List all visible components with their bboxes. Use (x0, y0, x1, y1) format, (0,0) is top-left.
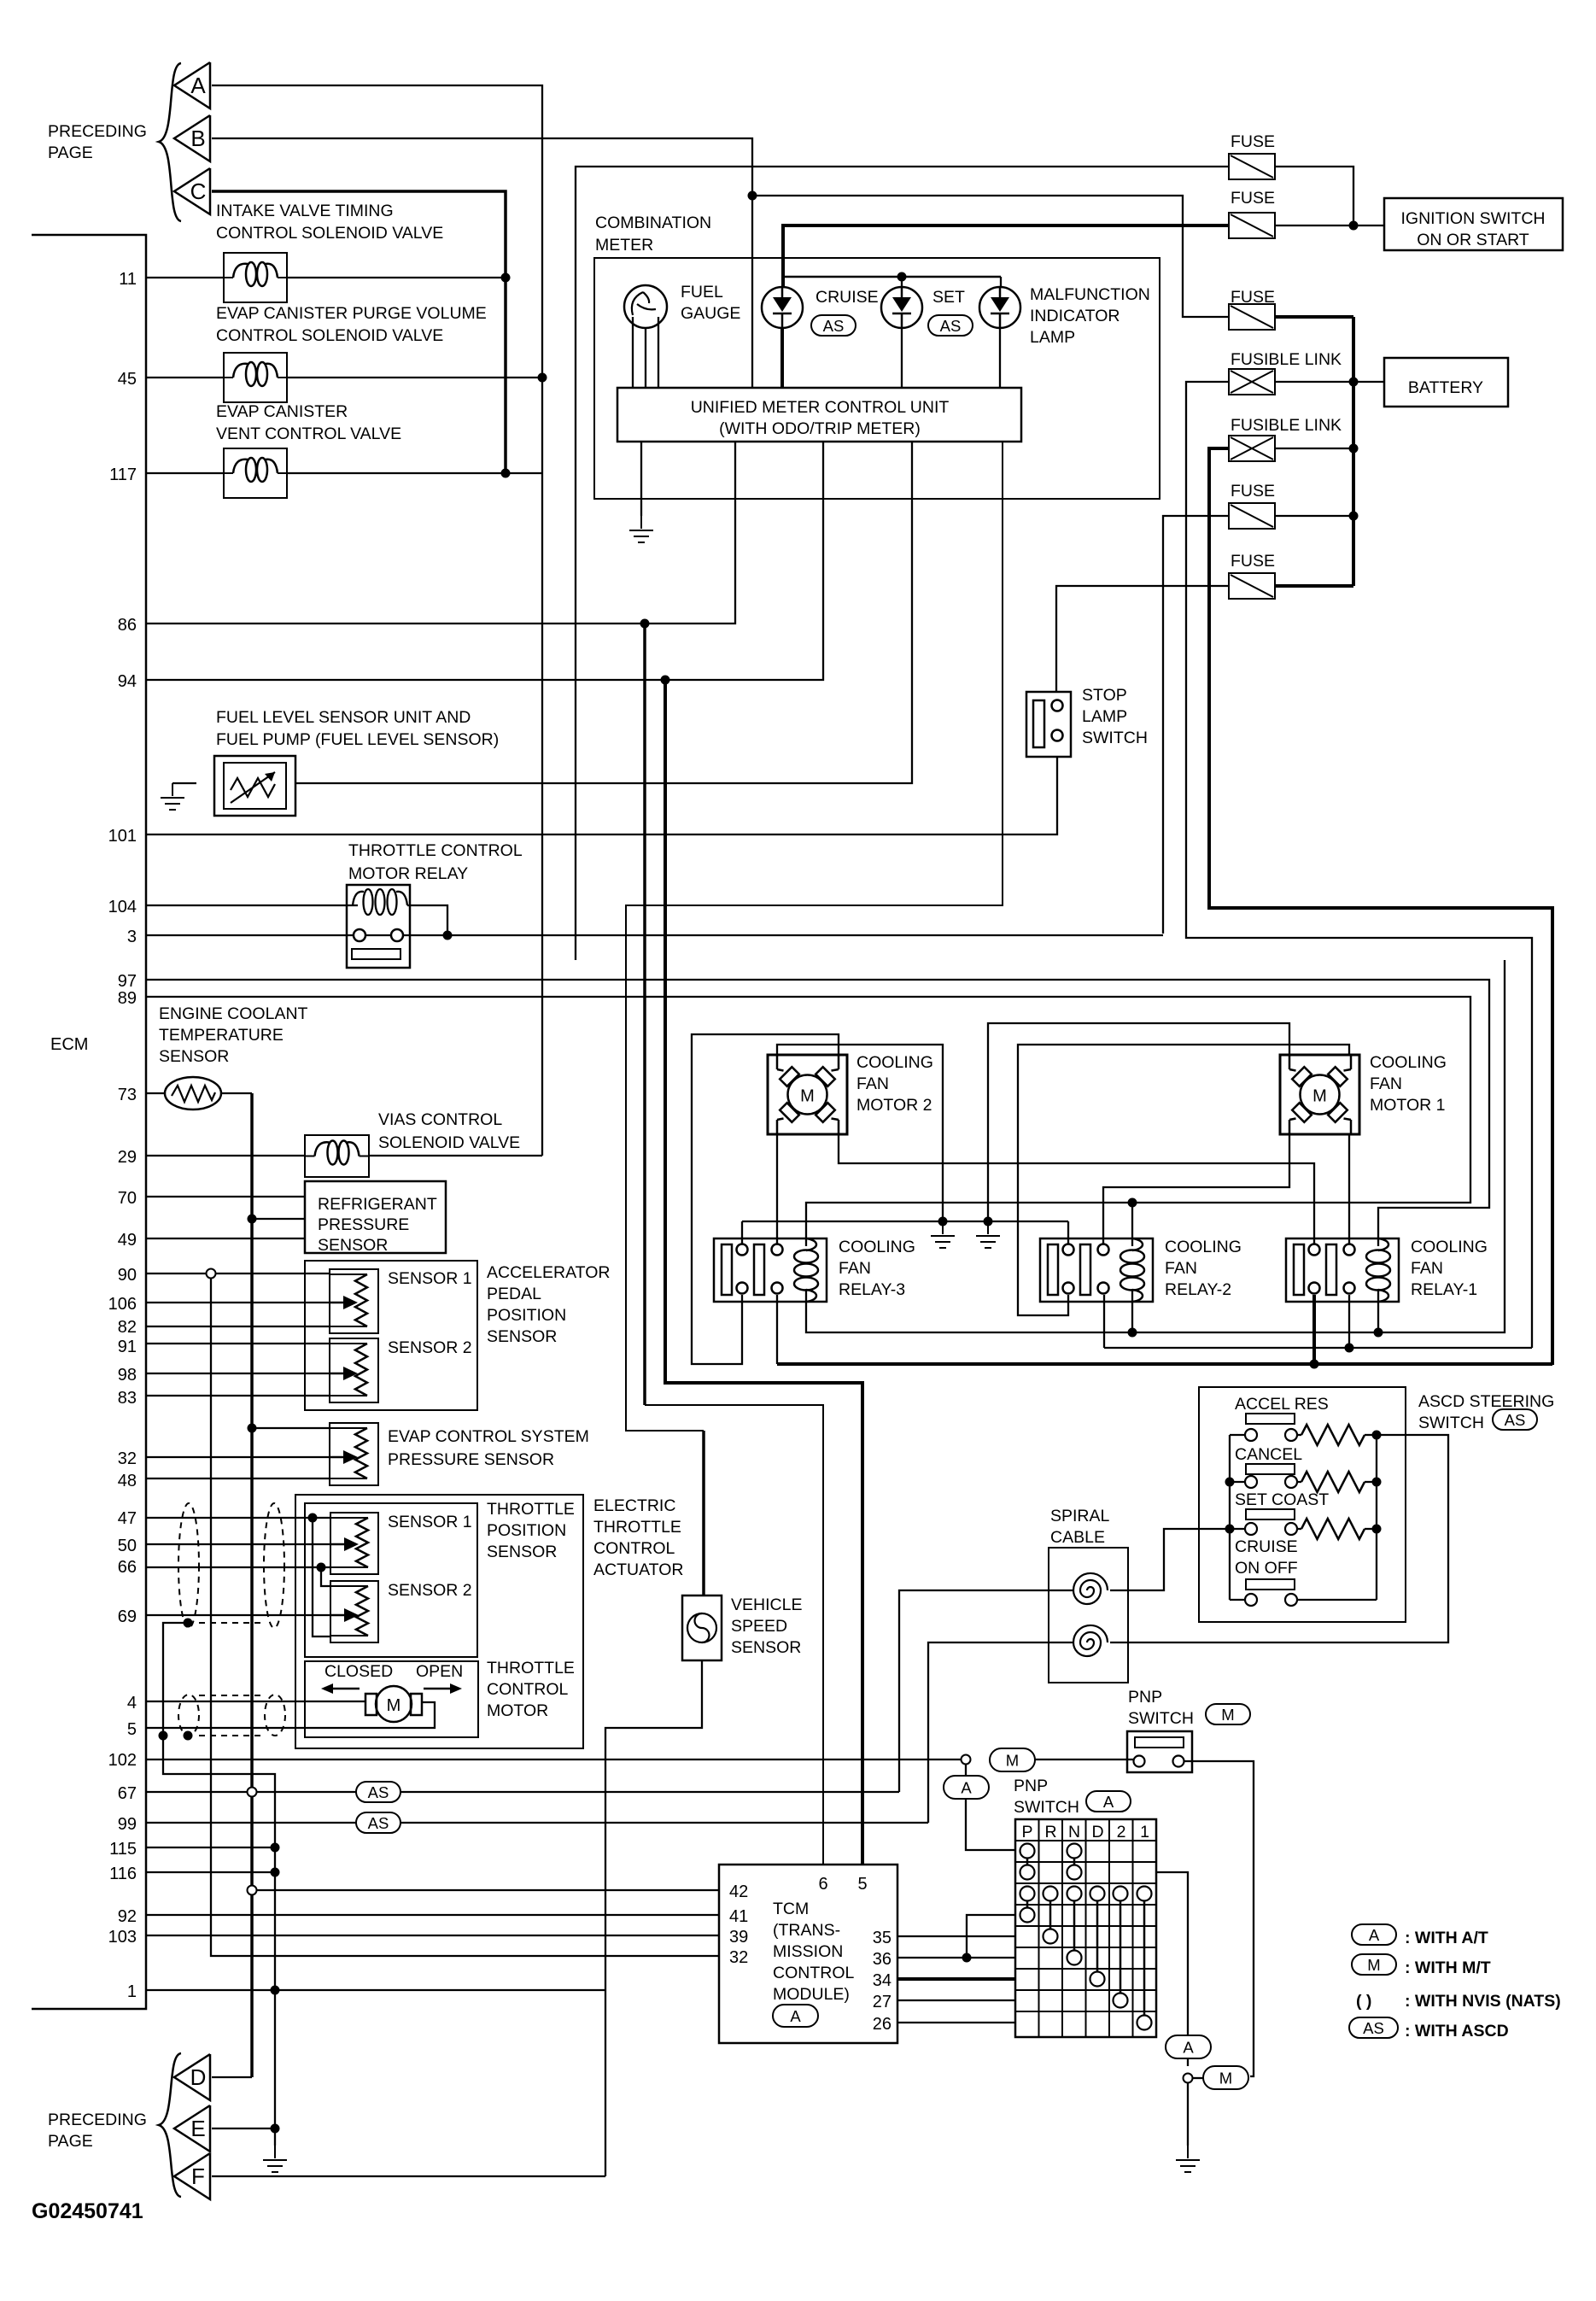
junction dot fan ground 1 (938, 1217, 948, 1227)
svg-text:F: F (191, 2163, 205, 2189)
legend AS oval (1349, 2017, 1398, 2038)
wire motor1 SE to relay-1 contact (1348, 1134, 1350, 1244)
svg-text:106: 106 (108, 1295, 137, 1314)
svg-text:COOLING: COOLING (1411, 1238, 1488, 1256)
ascd right bus (1376, 1435, 1377, 1600)
svg-text:INTAKE VALVE TIMING: INTAKE VALVE TIMING (216, 202, 394, 220)
svg-text:66: 66 (118, 1558, 137, 1577)
svg-text:SENSOR 2: SENSOR 2 (388, 1581, 472, 1600)
engine coolant temperature sensor (165, 1077, 221, 1110)
svg-text:MISSION: MISSION (773, 1942, 843, 1961)
open arrow (424, 1688, 450, 1690)
svg-text:ON OFF: ON OFF (1235, 1559, 1298, 1578)
svg-text:67: 67 (118, 1784, 137, 1803)
svg-text:47: 47 (118, 1509, 137, 1528)
wire E to ground bus (212, 2128, 275, 2129)
branch 66 to tps sensor 2 top (321, 1567, 330, 1586)
svg-text:STOP: STOP (1082, 686, 1127, 705)
svg-text:AS: AS (368, 1814, 389, 1832)
app sensor 2 potentiometer (330, 1338, 378, 1402)
junction dot pin 1 ground bus (271, 1986, 280, 1995)
svg-text:A: A (1369, 1926, 1380, 1944)
A oval label pnp (1086, 1791, 1131, 1812)
wire ascd right bus to spiral cable lower coil (1110, 1435, 1448, 1642)
wire fusible link2 left to relays (1209, 448, 1552, 1365)
set coast resistor (1301, 1519, 1365, 1539)
svg-text:ELECTRIC: ELECTRIC (593, 1496, 675, 1515)
wire motor1 NE to relay-2 output (1018, 1045, 1349, 1315)
PNP grid contacts column R (1044, 1887, 1058, 1901)
solenoid intake valve timing control (224, 253, 287, 302)
svg-text:CANCEL: CANCEL (1235, 1445, 1302, 1464)
malfunction indicator lamp (979, 287, 1020, 328)
sensor ground bus from ECT sensor (221, 1092, 252, 1094)
svg-text:FUEL PUMP (FUEL LEVEL SENSOR): FUEL PUMP (FUEL LEVEL SENSOR) (216, 730, 499, 749)
ignition switch box (1384, 198, 1563, 250)
svg-text:VEHICLE: VEHICLE (731, 1595, 802, 1614)
wire relay-3 bottom-right pin (776, 1295, 778, 1364)
svg-text:35: 35 (873, 1929, 892, 1947)
cruise lamp feed wire from FUSE 2 (783, 225, 1229, 287)
svg-text:6: 6 (818, 1875, 827, 1894)
svg-text:5: 5 (127, 1720, 137, 1739)
junction dot refrigerant sensor ground (248, 1215, 257, 1224)
svg-text:SWITCH: SWITCH (1128, 1709, 1194, 1728)
svg-text:: WITH NVIS (NATS): : WITH NVIS (NATS) (1405, 1992, 1561, 2011)
wire junction circle to ground (1187, 2083, 1189, 2146)
svg-text:( ): ( ) (1356, 1992, 1371, 2011)
svg-text:73: 73 (118, 1086, 137, 1104)
svg-text:FAN: FAN (856, 1074, 889, 1093)
wire F to vehicle speed sensor line (212, 2175, 605, 2177)
cruise on off contacts (1245, 1594, 1257, 1606)
svg-text:CONTROL SOLENOID VALVE: CONTROL SOLENOID VALVE (216, 326, 443, 345)
svg-text:MOTOR RELAY: MOTOR RELAY (348, 864, 468, 883)
svg-text:32: 32 (118, 1449, 137, 1468)
wire motor2 SW to relay-3 contact (776, 1134, 778, 1244)
wire set lamp to unified meter control unit (901, 328, 903, 388)
wire refrigerant sensor middle pin (252, 1218, 305, 1220)
junction dot pin 115 ground (271, 1843, 280, 1853)
wire fuse2 right (1275, 225, 1353, 226)
cruise on off switch bar (1246, 1579, 1295, 1590)
shielded cable ellipse 1 right (264, 1503, 284, 1628)
wire to ignition switch box (1353, 225, 1384, 226)
svg-text:SWITCH: SWITCH (1418, 1414, 1484, 1432)
svg-text:90: 90 (118, 1266, 137, 1285)
svg-text:PNP: PNP (1014, 1777, 1048, 1795)
svg-text:LAMP: LAMP (1030, 328, 1075, 347)
wire TCM pin 34 to PNP switch (897, 1977, 1015, 1981)
TCM box (719, 1865, 897, 2043)
A oval ground chain (1166, 2035, 1211, 2058)
set coast switch bar (1246, 1509, 1295, 1519)
junction dot C / pin 11 (501, 273, 511, 283)
svg-text:UNIFIED METER CONTROL UNIT: UNIFIED METER CONTROL UNIT (691, 398, 950, 417)
battery box (1384, 358, 1508, 407)
M oval lower (1203, 2066, 1248, 2089)
shielded cable ellipse 1 left (178, 1503, 199, 1628)
wire cruise lamp to unified meter control unit (780, 328, 784, 388)
connector circle sensor ground to TCM (248, 1886, 257, 1895)
svg-text:PAGE: PAGE (48, 143, 93, 162)
svg-text:THROTTLE: THROTTLE (487, 1659, 575, 1677)
svg-text:: WITH A/T: : WITH A/T (1405, 1929, 1488, 1947)
wire B branch to FUSE 3 (752, 196, 1229, 317)
svg-text:69: 69 (118, 1607, 137, 1626)
svg-text:RELAY-2: RELAY-2 (1165, 1280, 1231, 1299)
wire relay-1 bottom-left pin (1312, 1295, 1316, 1364)
spiral cable box (1049, 1548, 1128, 1683)
junction dot shield 1 drain (184, 1619, 193, 1628)
svg-text:101: 101 (108, 827, 137, 846)
refrigerant pressure sensor box (305, 1181, 446, 1253)
relay coil output wire (407, 905, 447, 935)
AS oval cruise (811, 315, 856, 336)
ground bus cooling fans (742, 1221, 1068, 1222)
branch 36 to PNP row 4 (967, 1915, 1015, 1958)
connector triangle C (174, 168, 210, 214)
svg-text:99: 99 (118, 1815, 137, 1834)
svg-text:PAGE: PAGE (48, 2132, 93, 2151)
svg-text:MOTOR 2: MOTOR 2 (856, 1096, 932, 1115)
cooling fan motor 2 (768, 1055, 847, 1134)
svg-text:FUSE: FUSE (1231, 189, 1275, 208)
wire sensor ground to TCM pin 42 (256, 1889, 719, 1891)
A oval pnp switch AT (944, 1776, 989, 1799)
wire motor1 NW to ground bus (988, 1023, 1289, 1221)
wire motor2 NE to relay-3 output loop (692, 1034, 839, 1364)
ground PNP switch (1187, 2146, 1189, 2158)
ground ECM main (274, 2146, 276, 2158)
svg-text:SWITCH: SWITCH (1014, 1798, 1079, 1817)
fuel level sensor resistor (231, 778, 275, 797)
connector circle pin 102 (962, 1755, 971, 1765)
ground cooling fan 2 (987, 1221, 989, 1234)
wire fuse4 right (1275, 515, 1353, 517)
svg-text:CLOSED: CLOSED (324, 1662, 393, 1681)
wire C down to pins 11/117 (212, 191, 506, 473)
wire ascd left bus to spiral cable upper coil (1110, 1529, 1230, 1590)
connector triangle E (174, 2105, 210, 2152)
svg-text:AS: AS (823, 317, 845, 335)
connector circle pin 90 (207, 1269, 216, 1279)
svg-text:AS: AS (1363, 2019, 1384, 2037)
accelerator pedal position sensor box (305, 1261, 477, 1410)
svg-text:COOLING: COOLING (1165, 1238, 1242, 1256)
svg-text:1: 1 (127, 1982, 137, 2001)
set indicator lamp (881, 287, 922, 328)
set lamp wire (901, 277, 903, 287)
svg-text:EVAP CANISTER PURGE VOLUME: EVAP CANISTER PURGE VOLUME (216, 304, 487, 323)
VIAS control solenoid valve (305, 1135, 369, 1177)
svg-text:ACCELERATOR: ACCELERATOR (487, 1263, 610, 1282)
junction dot ascd right bus cancel (1372, 1478, 1382, 1487)
svg-text:82: 82 (118, 1318, 137, 1337)
cooling fan relay-1 (1286, 1238, 1399, 1302)
evap pressure sensor potentiometer (330, 1423, 378, 1485)
tps sensor 1 potentiometer (330, 1513, 378, 1574)
combination meter box (594, 258, 1160, 499)
svg-text:FAN: FAN (1165, 1259, 1197, 1278)
svg-text:CRUISE: CRUISE (1235, 1537, 1298, 1556)
svg-text:FUSIBLE LINK: FUSIBLE LINK (1231, 416, 1342, 435)
svg-text:(TRANS-: (TRANS- (773, 1921, 840, 1940)
svg-text:COOLING: COOLING (1370, 1053, 1447, 1072)
throttle motor M (376, 1686, 412, 1722)
svg-text:FAN: FAN (1370, 1074, 1402, 1093)
svg-text:SET COAST: SET COAST (1235, 1490, 1329, 1509)
wire malfunction lamp to unified meter control unit (999, 328, 1001, 388)
junction dot relay-1 contact feed (1345, 1344, 1354, 1353)
junction dot ascd left bus cancel (1225, 1478, 1235, 1487)
wire TCM pin 27 to PNP switch (897, 1999, 1015, 2001)
relay bottom bar (352, 949, 400, 959)
svg-text:29: 29 (118, 1148, 137, 1167)
svg-text:E: E (190, 2116, 205, 2141)
branch 102 to PNP switch AT (965, 1765, 967, 1776)
legend M oval (1352, 1954, 1396, 1975)
PNP grid contacts column D (1090, 1887, 1105, 1901)
cruise indicator lamp (762, 287, 803, 328)
svg-text:COOLING: COOLING (839, 1238, 915, 1256)
junction dot relay output (443, 931, 453, 940)
svg-text:MOTOR 1: MOTOR 1 (1370, 1096, 1445, 1115)
cancel resistor (1301, 1472, 1365, 1492)
stop lamp switch pins (1052, 700, 1063, 711)
svg-text:A: A (1183, 2039, 1194, 2057)
junction dot ascd right bus top (1372, 1431, 1382, 1440)
svg-text:70: 70 (118, 1189, 137, 1208)
svg-text:G02450741: G02450741 (32, 2199, 143, 2223)
shielded cable ellipse 2 left (178, 1695, 199, 1736)
svg-text:C: C (190, 179, 207, 204)
wire motor2 NW to ground bus (777, 1045, 943, 1221)
branch 86 to TCM pin 6 (643, 624, 646, 1405)
svg-text:41: 41 (729, 1907, 748, 1926)
junction dot shield drain at shield 2 (159, 1731, 168, 1741)
svg-text:A: A (190, 73, 206, 98)
svg-text:M: M (387, 1696, 401, 1715)
svg-text:VIAS CONTROL: VIAS CONTROL (378, 1110, 502, 1129)
svg-text:36: 36 (873, 1950, 892, 1969)
wire M oval to junction circle (1193, 2077, 1203, 2079)
relay coil common bus to FUSE 1 feed (806, 960, 1505, 1332)
svg-text:86: 86 (118, 616, 137, 635)
ascd steering switch box (1199, 1387, 1406, 1622)
accel res resistor (1301, 1425, 1365, 1445)
connector circle pnp ground (1184, 2074, 1193, 2083)
svg-text:SENSOR: SENSOR (487, 1327, 557, 1346)
wire fusible link2 right (1275, 448, 1353, 449)
svg-text:SENSOR 2: SENSOR 2 (388, 1338, 472, 1357)
svg-text:ASCD STEERING: ASCD STEERING (1418, 1392, 1554, 1411)
svg-text:RELAY-1: RELAY-1 (1411, 1280, 1477, 1299)
svg-text:MALFUNCTION: MALFUNCTION (1030, 285, 1150, 304)
connector triangle F (174, 2153, 210, 2199)
svg-text:D: D (190, 2064, 207, 2090)
fuel level sensor unit box (214, 756, 295, 816)
throttle control motor box (305, 1661, 478, 1737)
junction dot relay-2 coil feed (1128, 1198, 1137, 1208)
wire battery feed to relay-1 and relay-2 contacts (1104, 1347, 1532, 1349)
stop lamp switch box (1026, 692, 1071, 757)
svg-text:M: M (1219, 2070, 1232, 2087)
closed arrow (333, 1688, 360, 1690)
svg-text:SENSOR: SENSOR (318, 1236, 388, 1255)
svg-text:R: R (1044, 1823, 1056, 1841)
wire motor1 SW to relay-2 contact (1103, 1134, 1289, 1244)
fuse 4 (1229, 503, 1275, 529)
svg-text:THROTTLE: THROTTLE (593, 1518, 681, 1537)
PNP grid contacts column P (1020, 1844, 1035, 1859)
cancel switch bar (1246, 1464, 1295, 1474)
svg-text:RELAY-3: RELAY-3 (839, 1280, 905, 1299)
svg-text:26: 26 (873, 2015, 892, 2034)
svg-text:AS: AS (1505, 1411, 1526, 1429)
svg-text:39: 39 (729, 1928, 748, 1947)
svg-text:TCM: TCM (773, 1900, 809, 1918)
svg-text:50: 50 (118, 1537, 137, 1555)
svg-text:FAN: FAN (839, 1259, 871, 1278)
svg-text:M: M (1367, 1956, 1380, 1974)
svg-text:98: 98 (118, 1366, 137, 1385)
svg-text:MOTOR: MOTOR (487, 1701, 548, 1720)
solenoid evap canister purge volume (224, 353, 287, 402)
fusible link 1 (1229, 369, 1275, 395)
svg-text:CONTROL: CONTROL (593, 1539, 675, 1558)
wire relay-1 coil bottom (1377, 1289, 1379, 1332)
wire relay-2 bottom-right pin (1103, 1295, 1105, 1348)
junction dot ascd right bus set (1372, 1525, 1382, 1534)
wire motor2 SE to relay-1 contact (839, 1134, 1314, 1244)
svg-text:32: 32 (729, 1948, 748, 1967)
wire fuse1 to ignition switch (1275, 167, 1353, 225)
svg-text:: WITH M/T: : WITH M/T (1405, 1958, 1491, 1977)
svg-text:SENSOR 1: SENSOR 1 (388, 1513, 472, 1531)
svg-text:M: M (1312, 1087, 1327, 1106)
svg-text:SENSOR: SENSOR (487, 1543, 557, 1561)
ground cooling fan 1 (942, 1221, 944, 1234)
svg-text:POSITION: POSITION (487, 1521, 566, 1540)
branch pin 90 to TCM pin 32 (211, 1279, 719, 1956)
shield 1 drain line (199, 1622, 264, 1624)
svg-text:TEMPERATURE: TEMPERATURE (159, 1026, 284, 1045)
connector triangle D (174, 2054, 210, 2100)
junction dot ascd left bus set (1225, 1525, 1235, 1534)
svg-text:115: 115 (109, 1840, 137, 1859)
svg-text:1: 1 (1140, 1823, 1149, 1841)
wire vehicle speed sensor to ECM pin 1 and F (605, 1660, 702, 2176)
svg-text:103: 103 (108, 1928, 137, 1947)
svg-text:OPEN: OPEN (416, 1662, 463, 1681)
svg-text:COMBINATION: COMBINATION (595, 214, 711, 232)
svg-text:34: 34 (873, 1971, 892, 1990)
svg-text:PRECEDING: PRECEDING (48, 122, 147, 141)
svg-text:AS: AS (368, 1783, 389, 1801)
svg-text:2: 2 (1117, 1823, 1126, 1841)
legend A oval (1352, 1924, 1396, 1945)
wire fusible link1 right (1275, 381, 1353, 383)
vehicle speed sensor box (682, 1595, 722, 1660)
wire TCM pin 26 to PNP switch (897, 2022, 1015, 2023)
wire VIAS valve to wire C/117 feed (369, 1155, 542, 1156)
fuse 3 (1229, 304, 1275, 330)
shield drain wire to ground bus (163, 1623, 275, 2146)
svg-text:94: 94 (118, 672, 137, 691)
svg-text:27: 27 (873, 1993, 892, 2011)
A oval TCM (773, 2005, 818, 2027)
svg-text:COOLING: COOLING (856, 1053, 933, 1072)
svg-text:D: D (1091, 1823, 1103, 1841)
svg-text:FUSE: FUSE (1231, 552, 1275, 571)
svg-text:ECM: ECM (50, 1035, 88, 1054)
svg-text:3: 3 (127, 928, 137, 946)
solenoid evap canister vent control valve (224, 448, 287, 498)
svg-text:FUEL: FUEL (681, 283, 723, 302)
junction dot relay-1 contact (1310, 1360, 1319, 1369)
battery bus vertical (1352, 317, 1355, 586)
svg-text:M: M (1006, 1752, 1019, 1770)
junction dot tps supply (308, 1514, 318, 1523)
svg-text:42: 42 (729, 1882, 748, 1901)
fuse 2 (1229, 213, 1275, 238)
M oval pnp switch MT (990, 1748, 1035, 1771)
svg-text:SET: SET (932, 288, 965, 307)
svg-text:4: 4 (127, 1694, 137, 1713)
cooling fan relay-3 (714, 1238, 827, 1302)
preceding page brace (bottom) (159, 2053, 181, 2197)
svg-text:FUEL LEVEL SENSOR UNIT AND: FUEL LEVEL SENSOR UNIT AND (216, 708, 471, 727)
svg-text:PRESSURE: PRESSURE (318, 1215, 409, 1234)
shield 2 dashes (199, 1695, 265, 1696)
wire fuse4 left to throttle relay (1163, 516, 1229, 934)
app sensor 1 potentiometer (330, 1269, 378, 1333)
wire to battery box (1353, 381, 1384, 383)
branch 47 to tps sensor 2 bottom (313, 1518, 330, 1636)
svg-text:SENSOR: SENSOR (159, 1047, 229, 1066)
svg-text:ACTUATOR: ACTUATOR (593, 1560, 683, 1579)
svg-text:ACCEL RES: ACCEL RES (1235, 1395, 1329, 1414)
svg-text:SPEED: SPEED (731, 1617, 787, 1636)
svg-text:PRESSURE SENSOR: PRESSURE SENSOR (388, 1450, 554, 1469)
svg-text:EVAP CONTROL SYSTEM: EVAP CONTROL SYSTEM (388, 1427, 589, 1446)
vehicle speed sensor symbol (687, 1613, 716, 1642)
svg-text:GAUGE: GAUGE (681, 304, 740, 323)
svg-text:5: 5 (857, 1875, 867, 1894)
PNP switch MT box (1127, 1731, 1192, 1772)
junction dot ignition feed (1349, 221, 1359, 231)
svg-text:SENSOR: SENSOR (731, 1638, 801, 1657)
svg-text:AS: AS (940, 317, 962, 335)
junction dot relay-2 coil bus (1128, 1328, 1137, 1338)
svg-text:BATTERY: BATTERY (1408, 378, 1483, 397)
svg-text:45: 45 (118, 370, 137, 389)
wire fuse3 to battery bus (1275, 315, 1353, 319)
svg-text:CRUISE: CRUISE (816, 288, 879, 307)
svg-text:FUSE: FUSE (1231, 132, 1275, 151)
fusible link 2 (1229, 436, 1275, 461)
malfunction lamp wire (1000, 277, 1002, 287)
AS oval set (928, 315, 973, 336)
svg-text:89: 89 (118, 989, 137, 1008)
svg-text:THROTTLE: THROTTLE (487, 1500, 575, 1519)
svg-text:SPIRAL: SPIRAL (1050, 1507, 1110, 1525)
svg-text:117: 117 (109, 465, 137, 484)
wire relay-1 bottom-right pin (1348, 1295, 1350, 1348)
svg-text:(WITH ODO/TRIP METER): (WITH ODO/TRIP METER) (719, 419, 921, 438)
svg-text:N: N (1068, 1823, 1080, 1841)
